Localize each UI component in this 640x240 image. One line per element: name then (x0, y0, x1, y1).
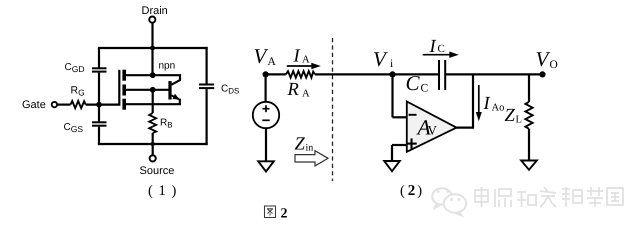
watermark logo wechat bubbles (432, 188, 466, 215)
node VA (263, 71, 269, 77)
svg-text:Source: Source (140, 165, 175, 177)
wire body to RB (152, 90, 154, 113)
mosfet drain bar (122, 70, 126, 81)
svg-text:CGD: CGD (65, 62, 85, 74)
node drain (150, 72, 156, 78)
mosfet gate line (118, 70, 120, 105)
wire top rail (98, 47, 208, 49)
source minus (262, 119, 269, 121)
svg-text:in: in (306, 143, 314, 154)
ground VS (258, 161, 274, 171)
source VS circle (253, 102, 279, 128)
svg-text:Drain: Drain (142, 5, 168, 17)
svg-text:Z: Z (295, 135, 306, 155)
resistor RA (286, 71, 315, 77)
op-amp AV (407, 102, 457, 152)
wire ZL branch (528, 74, 530, 102)
svg-text:): ) (417, 183, 422, 199)
current arrow IC (423, 54, 451, 56)
svg-text:L: L (516, 115, 522, 126)
wire drain bar to node (126, 74, 153, 76)
wire left rail upper (98, 48, 100, 68)
svg-text:A: A (302, 89, 310, 100)
svg-text:A: A (268, 56, 277, 68)
transistor Q1 emitter (171, 95, 178, 99)
capacitor CGD (92, 68, 107, 71)
resistor ZL (525, 102, 532, 129)
wire bottom rail (98, 143, 208, 145)
terminal Gate (52, 102, 57, 107)
wire opamp output (456, 126, 474, 128)
wire VA source branch (265, 74, 267, 101)
svg-text:1: 1 (159, 183, 166, 199)
svg-text:I: I (293, 47, 301, 67)
svg-text:A: A (302, 55, 310, 66)
wire gate to mosfet (86, 103, 121, 105)
current arrow IA (287, 65, 313, 67)
resistor RG (71, 101, 86, 108)
svg-text:2: 2 (408, 183, 416, 199)
wire VS to ground (265, 128, 267, 161)
node VO (539, 71, 545, 77)
svg-text:RG: RG (71, 85, 85, 98)
ground opamp (384, 161, 400, 171)
node body (150, 87, 156, 93)
watermark text dian yuan yan fa jing ying quan (475, 187, 623, 207)
svg-text:O: O (550, 59, 558, 71)
svg-text:Z: Z (505, 106, 516, 126)
wire VA to RA (266, 73, 286, 75)
node gate junction (96, 102, 102, 108)
svg-text:npn: npn (159, 61, 176, 72)
svg-text:C: C (438, 43, 445, 55)
wire body to base (126, 89, 169, 91)
current arrow IAo (478, 85, 480, 113)
capacitor CC (439, 60, 445, 90)
svg-text:): ) (172, 183, 177, 199)
wire left rail mid (98, 73, 100, 122)
wire RA to Vi (315, 73, 393, 75)
caption 图2 glyph tu (265, 206, 276, 218)
svg-text:C: C (406, 71, 421, 95)
boundary dashed line (332, 38, 334, 181)
wire gate lead (57, 103, 70, 105)
capacitor CGS (92, 122, 107, 125)
wire RB to bottom rail (152, 133, 154, 155)
wire ZL to ground (528, 129, 530, 161)
svg-text:Gate: Gate (22, 99, 46, 111)
svg-text:V: V (373, 47, 388, 71)
node drain-toprail junction (150, 46, 155, 51)
svg-text:I: I (483, 94, 491, 114)
wire source bar row (126, 103, 181, 105)
svg-text:V: V (536, 47, 551, 71)
mosfet source bar (122, 99, 126, 110)
transistor Q1 base bar (168, 81, 171, 100)
mosfet body bar (122, 85, 126, 96)
wire Vi to CC (393, 73, 439, 75)
terminal Source (150, 155, 156, 161)
node Vi (389, 71, 395, 77)
transistor Q1 collector (153, 75, 180, 85)
svg-text:V: V (254, 44, 269, 68)
source plus (263, 105, 270, 112)
wire right rail upper (206, 47, 208, 84)
wire Vi down (391, 74, 393, 117)
node RB bottom rail junction (151, 142, 155, 146)
wire CC to VO (446, 73, 543, 75)
svg-text:CDS: CDS (221, 84, 239, 96)
wire drain vertical (151, 23, 153, 75)
wire plus input (392, 144, 407, 146)
terminal Drain (149, 17, 155, 23)
svg-text:(: ( (400, 183, 405, 199)
wire emitter corner (179, 99, 181, 105)
svg-text:C: C (421, 83, 429, 95)
svg-text:i: i (390, 58, 393, 70)
svg-text:RB: RB (160, 118, 173, 130)
resistor RB (149, 113, 156, 133)
svg-text:2: 2 (281, 207, 288, 222)
svg-text:R: R (287, 80, 299, 100)
impedance arrow Zin (295, 151, 328, 166)
wire to minus input (393, 116, 407, 118)
svg-text:Ao: Ao (492, 103, 505, 114)
opamp plus (406, 138, 416, 148)
wire right rail lower (206, 89, 208, 145)
capacitor CDS (199, 85, 214, 89)
svg-text:CGS: CGS (64, 122, 84, 134)
opamp minus (409, 114, 417, 116)
svg-text:V: V (428, 123, 438, 138)
svg-text:(: ( (148, 183, 153, 199)
wire left rail lower (98, 127, 100, 145)
ground ZL (521, 161, 537, 170)
